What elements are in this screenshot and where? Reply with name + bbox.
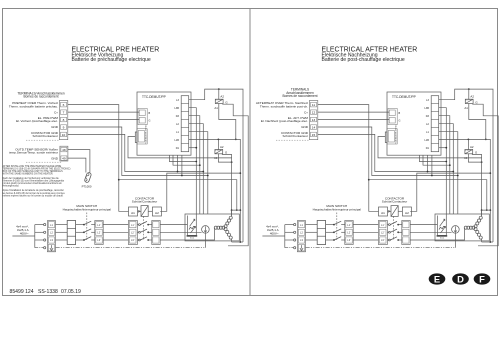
svg-text:GND: GND <box>51 125 59 129</box>
svg-text:D: D <box>457 273 464 284</box>
svg-text:85499 124: 85499 124 <box>10 289 34 295</box>
svg-text:6: 6 <box>63 103 65 107</box>
svg-text:El. Vorheiz /préchauffage elec: El. Vorheiz /préchauffage elec. <box>16 119 58 123</box>
svg-text:Schütz/Contacteur: Schütz/Contacteur <box>33 134 58 138</box>
svg-text:400V~: 400V~ <box>20 231 29 235</box>
svg-text:heat: heat <box>190 237 195 240</box>
svg-text:SS-1338: SS-1338 <box>38 289 58 295</box>
svg-text:Hauptschalter/Interrupteur pri: Hauptschalter/Interrupteur principal <box>63 207 112 211</box>
svg-text:Batterie de post-chauffage ele: Batterie de post-chauffage electrique <box>322 57 405 63</box>
svg-text:El. Nachheiz (post-chauffage é: El. Nachheiz (post-chauffage élec. <box>261 119 308 123</box>
svg-text:Heizungsmodul.: Heizungsmodul. <box>3 186 20 188</box>
svg-text:Batterie de préchauffage elect: Batterie de préchauffage electrique <box>72 57 151 63</box>
svg-text:KTPW: KTPW <box>216 100 222 102</box>
svg-text:C+: C+ <box>304 110 308 114</box>
svg-text:Bornes de raccordement: Bornes de raccordement <box>283 94 318 98</box>
svg-text:L2: L2 <box>176 123 179 126</box>
svg-text:07.05.19: 07.05.19 <box>61 289 81 295</box>
svg-text:D1: D1 <box>426 147 430 150</box>
svg-text:L3B: L3B <box>424 107 429 110</box>
svg-text:Après l'installation de la bat: Après l'installation de la batterie de p… <box>3 189 65 192</box>
svg-text:400V~: 400V~ <box>270 231 279 235</box>
svg-text:L3: L3 <box>50 238 53 242</box>
svg-text:L2: L2 <box>300 231 303 235</box>
svg-text:L1: L1 <box>426 131 429 134</box>
svg-text:temp.Sensor/Temp. sonde extéri: temp.Sensor/Temp. sonde extérieur <box>9 151 58 155</box>
svg-text:11: 11 <box>312 103 315 107</box>
svg-text:L2’: L2’ <box>347 231 351 235</box>
svg-text:AFTER INSTALLING THE PRE HEATE: AFTER INSTALLING THE PRE HEATER PLEASE W… <box>3 165 62 168</box>
svg-text:B: B <box>149 112 151 115</box>
svg-text:A1: A1 <box>214 106 218 110</box>
svg-text:Schütz/Contacteur: Schütz/Contacteur <box>132 199 157 203</box>
svg-text:L3’: L3’ <box>347 238 351 242</box>
svg-text:A2: A2 <box>470 145 474 149</box>
svg-text:GND: GND <box>51 156 59 160</box>
svg-text:G: G <box>225 100 228 104</box>
svg-text:Therm. surchauffe batterie pos: Therm. surchauffe batterie post-ch. <box>260 104 308 108</box>
svg-text:BOX OF THE AIR HANDLING UNIT T: BOX OF THE AIR HANDLING UNIT TO THE TERM… <box>3 170 64 173</box>
svg-text:WITH THE SAME NUMBERS ON THE H: WITH THE SAME NUMBERS ON THE HEATER. <box>3 173 54 176</box>
svg-text:GND: GND <box>301 125 309 129</box>
svg-text:L1: L1 <box>50 223 53 227</box>
svg-text:12: 12 <box>312 111 316 115</box>
svg-text:A2: A2 <box>155 211 159 215</box>
svg-text:Therm. surchauffe batterie pré: Therm. surchauffe batterie préchau. <box>9 104 58 108</box>
svg-text:L2: L2 <box>426 123 429 126</box>
svg-text:D3: D3 <box>176 115 180 118</box>
svg-text:L3’: L3’ <box>97 238 101 242</box>
svg-text:heat: heat <box>440 237 445 240</box>
svg-text:G: G <box>399 120 401 123</box>
svg-text:L1B: L1B <box>174 139 179 142</box>
svg-text:L2: L2 <box>50 231 53 235</box>
svg-text:L1’: L1’ <box>381 223 385 227</box>
svg-text:L3’: L3’ <box>381 238 385 242</box>
svg-text:14: 14 <box>312 125 316 129</box>
svg-text:KTPW: KTPW <box>466 100 472 102</box>
svg-text:L1’: L1’ <box>97 223 101 227</box>
svg-text:E: E <box>434 273 440 284</box>
svg-text:VOLTAGE/W 24V DC: VOLTAGE/W 24V DC <box>394 124 397 144</box>
svg-text:7: 7 <box>63 111 65 115</box>
svg-text:D1: D1 <box>176 147 180 150</box>
svg-text:KTPW: KTPW <box>465 150 471 152</box>
svg-text:mêmes repères situées sur le b: mêmes repères situées sur le bornier du … <box>3 194 64 197</box>
svg-text:VOLTAGE/W 24V DC: VOLTAGE/W 24V DC <box>144 124 147 144</box>
svg-text:KTPW: KTPW <box>215 150 221 152</box>
svg-text:Nach der Installation der Vorh: Nach der Installation der Vorheizung ver… <box>3 177 60 180</box>
svg-text:49: 49 <box>62 157 66 161</box>
svg-text:B: B <box>399 112 401 115</box>
svg-text:A1: A1 <box>131 211 135 215</box>
svg-text:D3: D3 <box>426 115 430 118</box>
svg-text:L2’: L2’ <box>381 231 385 235</box>
svg-text:L2’: L2’ <box>131 231 135 235</box>
svg-text:L1’: L1’ <box>131 223 135 227</box>
svg-text:A2: A2 <box>405 211 409 215</box>
svg-text:L1: L1 <box>300 223 303 227</box>
svg-text:C+: C+ <box>54 110 58 114</box>
svg-text:G: G <box>225 151 228 155</box>
svg-text:10: 10 <box>62 133 66 137</box>
svg-text:Bornes de raccordement: Bornes de raccordement <box>24 95 59 99</box>
svg-text:G: G <box>475 100 478 104</box>
svg-text:L3: L3 <box>426 99 429 102</box>
svg-text:TTC-DEMUT/PP: TTC-DEMUT/PP <box>392 95 416 99</box>
svg-text:Schütz/Contacteur: Schütz/Contacteur <box>382 199 407 203</box>
svg-text:L3’: L3’ <box>131 238 135 242</box>
svg-text:L1’: L1’ <box>347 223 351 227</box>
svg-text:mit den gleich nummerierten An: mit den gleich nummerierten Anschlusskle… <box>3 182 62 185</box>
svg-text:A2: A2 <box>220 145 224 149</box>
svg-text:G: G <box>475 151 478 155</box>
svg-text:48: 48 <box>62 148 66 152</box>
svg-text:F: F <box>479 273 485 284</box>
svg-text:L3: L3 <box>176 99 179 102</box>
svg-text:G: G <box>149 120 151 123</box>
svg-text:L3: L3 <box>300 238 303 242</box>
svg-text:15: 15 <box>312 133 316 137</box>
svg-text:L1: L1 <box>176 131 179 134</box>
svg-text:L3B: L3B <box>174 107 179 110</box>
svg-text:TTC-DEMUT/PP: TTC-DEMUT/PP <box>142 95 166 99</box>
svg-text:8: 8 <box>63 118 65 122</box>
svg-text:Hauptschalter/Interrupteur pri: Hauptschalter/Interrupteur principal <box>313 207 362 211</box>
svg-text:L2’: L2’ <box>97 231 101 235</box>
svg-text:PT1000: PT1000 <box>82 184 92 188</box>
svg-text:L1B: L1B <box>424 139 429 142</box>
svg-text:A1: A1 <box>464 106 468 110</box>
svg-text:A2: A2 <box>220 95 224 99</box>
svg-text:A1: A1 <box>381 211 385 215</box>
svg-text:Schütz/Contacteur: Schütz/Contacteur <box>283 134 308 138</box>
svg-text:9: 9 <box>63 125 65 129</box>
svg-text:13: 13 <box>312 118 316 122</box>
svg-text:A2: A2 <box>470 95 474 99</box>
